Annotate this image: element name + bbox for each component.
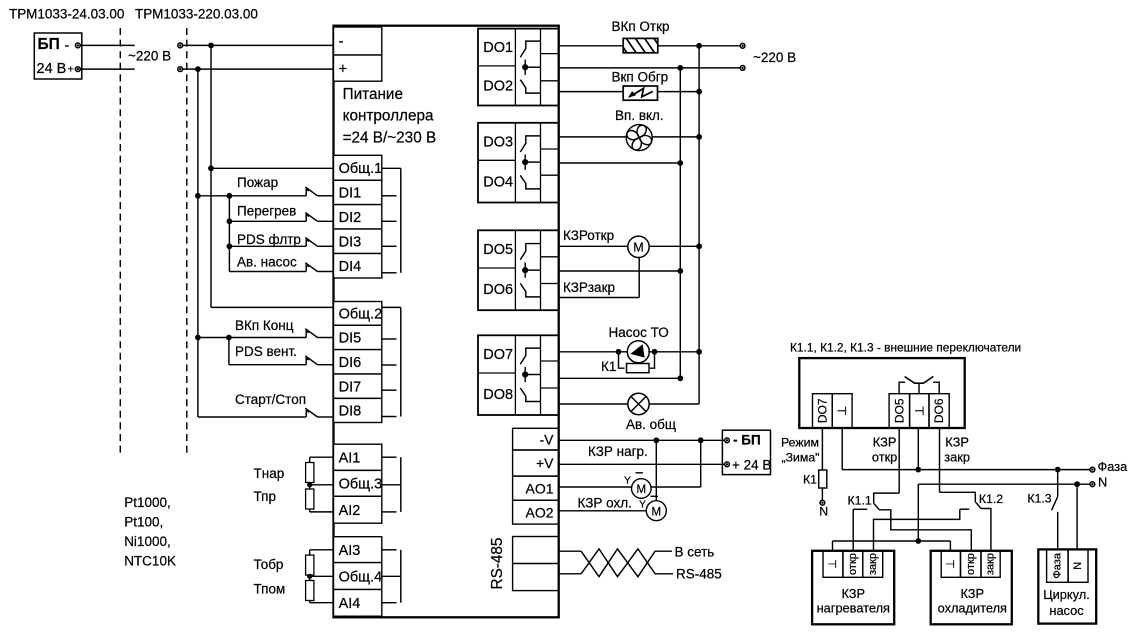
wire <box>318 416 334 418</box>
terminal ⊥ nagr <box>823 551 843 578</box>
svg-text:Режим: Режим <box>781 436 819 450</box>
svg-text:DO8: DO8 <box>483 387 513 403</box>
divider <box>541 360 559 362</box>
wire <box>700 440 702 487</box>
terminal откр ohl <box>961 551 982 578</box>
label minus M2 <box>651 495 659 497</box>
wire <box>874 493 900 503</box>
divider <box>541 174 559 176</box>
wire mains to plus terminal <box>183 68 334 70</box>
svg-text:„Зима": „Зима" <box>782 451 820 465</box>
junction <box>653 437 659 443</box>
svg-text:DO5: DO5 <box>483 242 513 258</box>
svg-text:К1: К1 <box>803 472 817 486</box>
terminal Общ.3 <box>334 470 382 496</box>
relay contact DO3 <box>520 136 540 189</box>
svg-text:-V: -V <box>540 431 555 447</box>
svg-text:DI7: DI7 <box>339 379 362 395</box>
wire RS485 B <box>559 573 581 575</box>
svg-text:Общ.2: Общ.2 <box>339 307 383 323</box>
svg-text:ВКп Откр: ВКп Откр <box>612 19 670 34</box>
twisted pair RS-485 <box>581 549 673 577</box>
terminal ⊥ ohl <box>941 551 960 578</box>
wire <box>229 364 306 366</box>
wire <box>229 337 306 339</box>
terminal 220V L <box>740 43 745 48</box>
svg-text:В сеть: В сеть <box>675 544 715 559</box>
junction <box>696 43 702 49</box>
svg-text:К1.1, К1.2, К1.3 - внешние пер: К1.1, К1.2, К1.3 - внешние переключатели <box>790 341 1021 355</box>
terminal DI6 <box>334 350 382 374</box>
svg-text:DO5: DO5 <box>892 398 906 423</box>
svg-text:Тобр: Тобр <box>254 557 284 572</box>
switch blade <box>305 187 317 196</box>
switch blade <box>305 329 317 338</box>
svg-text:насос: насос <box>1049 603 1084 618</box>
terminal DI1 <box>334 180 382 204</box>
svg-text:DO6: DO6 <box>483 282 513 298</box>
device KZR ohladitelya box <box>931 551 1012 625</box>
svg-text:DI2: DI2 <box>339 210 362 226</box>
wire <box>318 271 334 273</box>
terminal DO7 ext <box>813 394 833 428</box>
svg-text:К1: К1 <box>601 359 616 374</box>
wire to KZR ohl common <box>949 541 951 551</box>
junction <box>652 349 658 355</box>
wire <box>318 195 334 197</box>
svg-text:+: + <box>339 61 347 77</box>
wire to Obsh.1 <box>211 167 334 169</box>
wire fan to phase bus <box>652 136 699 138</box>
svg-text:DO6: DO6 <box>932 398 946 423</box>
svg-text:N: N <box>1072 562 1084 570</box>
junction <box>227 218 233 224</box>
wire <box>229 245 306 247</box>
terminal mains N <box>178 67 183 72</box>
svg-text:DI1: DI1 <box>339 186 362 202</box>
wire Obgr to phase bus <box>658 91 700 93</box>
terminal DI8 <box>334 398 382 422</box>
wire common2 down <box>917 428 919 470</box>
svg-text:- БП: - БП <box>733 433 761 448</box>
svg-text:DI5: DI5 <box>339 331 362 347</box>
valve actuator M2 KZR ohl <box>646 501 666 521</box>
terminal DI2 <box>334 205 382 229</box>
device circul pump box <box>1038 549 1096 623</box>
wire phase to K1.3 <box>1057 470 1059 497</box>
wire <box>228 338 230 365</box>
wire mains to minus terminal <box>183 44 334 46</box>
svg-text:AO1: AO1 <box>525 480 553 496</box>
svg-text:закр: закр <box>867 553 879 575</box>
terminal закр ohl <box>981 551 1000 578</box>
wire <box>318 337 334 339</box>
svg-text:N: N <box>1098 474 1107 489</box>
wire terminal stub <box>382 306 401 308</box>
svg-text:М: М <box>637 484 647 496</box>
wire DO3 out <box>559 136 627 138</box>
wire <box>197 416 199 418</box>
terminal DI3 <box>334 229 382 254</box>
wire <box>198 337 229 339</box>
junction <box>195 66 201 72</box>
svg-text:⊥: ⊥ <box>827 559 839 569</box>
wire to KZR nagr zakr <box>874 509 960 551</box>
svg-text:AI2: AI2 <box>339 503 361 519</box>
wire DO8 out <box>559 403 628 405</box>
wire <box>318 364 334 366</box>
svg-text:DI6: DI6 <box>339 355 362 371</box>
wire K1.1 to KZR ohl otkr <box>879 510 971 551</box>
wire sensor bottom <box>310 511 334 513</box>
wire <box>650 352 655 368</box>
svg-text:охладителя: охладителя <box>938 600 1007 615</box>
wire phase bus <box>698 46 700 404</box>
resistor sensor Тпр <box>306 489 314 509</box>
switch fixed contact <box>306 411 309 417</box>
divider <box>514 29 516 106</box>
lamp Av obsh <box>628 393 649 414</box>
junction <box>195 335 201 341</box>
wire <box>318 220 334 222</box>
wire terminal stub <box>382 167 401 169</box>
wire terminal stub <box>382 456 397 458</box>
divider <box>478 65 515 67</box>
svg-text:+V: +V <box>536 455 554 471</box>
divider <box>514 123 516 203</box>
svg-text:N: N <box>819 504 828 518</box>
switch fixed contact <box>306 190 309 196</box>
wire terminal stub <box>382 484 401 486</box>
terminal 220V N <box>740 66 745 71</box>
wire -V out <box>559 439 724 441</box>
wire sensor chain <box>309 457 311 512</box>
svg-text:Вкп Обгр: Вкп Обгр <box>612 69 669 84</box>
switch fixed contact <box>306 358 309 364</box>
divider <box>540 230 542 310</box>
heater VKp Otkr <box>616 37 664 53</box>
wire <box>198 416 306 418</box>
wire K1.2 to KZR ohl zakr <box>981 509 991 551</box>
wire AO1 out <box>559 486 632 488</box>
wire common bus 2 <box>197 69 199 417</box>
wire <box>198 195 230 197</box>
relay block DO3/DO4 <box>478 123 559 203</box>
svg-text:DO7: DO7 <box>815 398 829 423</box>
wire to KZR nagr common <box>832 541 834 551</box>
terminal mains L <box>178 43 183 48</box>
terminal block RS-485 <box>513 537 559 591</box>
svg-text:откр: откр <box>872 450 897 465</box>
svg-text:М: М <box>633 241 643 255</box>
svg-text:DO4: DO4 <box>483 174 513 190</box>
wire sensor bottom <box>310 602 334 604</box>
wire terminal stub <box>382 416 397 418</box>
relay block DO1/DO2 <box>478 29 559 106</box>
switch blade <box>305 408 317 417</box>
terminal AI3 <box>334 537 382 563</box>
wire bridge <box>833 540 951 542</box>
label minus M1 <box>636 472 644 474</box>
wire DO5 common to neutral bus <box>559 270 681 272</box>
svg-text:Питание: Питание <box>343 86 403 103</box>
svg-text:ТРМ1033-24.03.00: ТРМ1033-24.03.00 <box>9 7 124 22</box>
wire <box>229 271 306 273</box>
svg-text:Ав. насос: Ав. насос <box>237 255 297 270</box>
wire <box>940 492 976 502</box>
wire DO7 out <box>559 351 627 353</box>
svg-text:КЗР: КЗР <box>961 586 985 601</box>
svg-text:DI3: DI3 <box>339 234 362 250</box>
external switch box <box>799 358 964 428</box>
svg-text:Ав. общ: Ав. общ <box>626 417 676 432</box>
wire sensor top <box>310 549 334 551</box>
svg-text:AI1: AI1 <box>339 451 361 467</box>
junction <box>226 335 232 341</box>
svg-text:RS-485: RS-485 <box>676 566 722 581</box>
junction <box>677 160 683 166</box>
wire common1 down <box>841 428 843 470</box>
junction <box>227 243 233 249</box>
svg-text:Вп. вкл.: Вп. вкл. <box>615 108 664 123</box>
wire DO1 out <box>559 45 624 47</box>
wire <box>229 195 306 197</box>
terminal AO2 <box>513 500 559 524</box>
junction <box>698 437 704 443</box>
svg-text:КЗР: КЗР <box>945 435 969 450</box>
svg-text:Y: Y <box>624 475 631 487</box>
svg-text:DO3: DO3 <box>483 134 513 150</box>
svg-text:24 В: 24 В <box>37 61 67 77</box>
power supply BP box <box>34 33 82 79</box>
svg-text:=24 В/~230 В: =24 В/~230 В <box>343 130 437 147</box>
relay contact DO7 <box>520 348 540 401</box>
svg-text:контроллера: контроллера <box>343 108 434 125</box>
divider <box>541 283 559 285</box>
wire DI group bus <box>228 196 230 272</box>
wire terminal stub <box>382 389 397 391</box>
wire group bracket <box>400 550 402 603</box>
wire BP minus <box>81 44 135 46</box>
junction <box>696 349 702 355</box>
terminal N winter <box>820 500 825 505</box>
junction <box>1074 481 1080 487</box>
wire phase line <box>842 469 1090 471</box>
switch fixed contact <box>306 331 309 337</box>
junction <box>307 482 312 487</box>
wire group bracket <box>400 168 402 272</box>
wire sensor mid <box>310 575 334 577</box>
terminal N <box>1090 482 1095 487</box>
wire DO2 out <box>559 91 624 93</box>
junction <box>696 243 702 249</box>
svg-text:Насос ТО: Насос ТО <box>609 325 669 340</box>
wire heater to mains <box>658 45 742 47</box>
switch blade <box>305 356 317 365</box>
divider <box>541 53 559 55</box>
wire AO2 out <box>559 510 646 512</box>
svg-text:Pt100,: Pt100, <box>124 515 163 530</box>
terminal N pump <box>1068 549 1088 582</box>
junction <box>1055 467 1061 473</box>
junction <box>915 467 921 473</box>
svg-text:Тпом: Тпом <box>254 582 286 597</box>
wire DO5 out <box>559 245 628 247</box>
svg-text:КЗР охл.: КЗР охл. <box>578 496 632 511</box>
switch K1.2 contact <box>960 508 969 510</box>
resistor sensor Тнар <box>306 463 314 483</box>
svg-text:DO2: DO2 <box>483 79 513 95</box>
switch fixed contact <box>306 215 309 221</box>
wire N to pump N <box>1076 484 1078 549</box>
svg-text:Общ.3: Общ.3 <box>339 477 383 493</box>
wire neutral bus <box>679 69 681 378</box>
svg-text:RS-485: RS-485 <box>489 538 506 590</box>
svg-text:М: М <box>652 507 662 519</box>
switch K1.1 contact <box>853 508 867 510</box>
wire terminal stub <box>382 272 397 274</box>
junction <box>227 193 233 199</box>
svg-text:Перегрев: Перегрев <box>237 203 296 218</box>
svg-text:⊥: ⊥ <box>945 559 957 569</box>
svg-text:NTC10K: NTC10K <box>124 554 176 569</box>
svg-text:ВКп Конц: ВКп Конц <box>235 318 294 333</box>
wire group bracket <box>400 457 402 512</box>
wire -V to M2 <box>655 440 657 500</box>
svg-text:КЗР нагр.: КЗР нагр. <box>588 444 648 459</box>
terminal -V <box>513 428 559 450</box>
svg-text:Пожар: Пожар <box>237 175 278 190</box>
divider <box>514 230 516 310</box>
terminal BP plus <box>75 67 80 72</box>
svg-text:DI8: DI8 <box>339 404 362 420</box>
svg-text:БП: БП <box>38 36 60 53</box>
wire N to bridge <box>917 484 919 541</box>
wire pump to phase bus <box>648 351 699 353</box>
terminal AI1 <box>334 444 382 470</box>
divider <box>540 29 542 106</box>
switch symbol inside external box <box>899 376 939 393</box>
svg-text:PDS флтр: PDS флтр <box>237 232 301 247</box>
power supply 24V box <box>722 430 770 474</box>
wire sensor top <box>310 456 334 458</box>
relay block DO7/DO8 <box>478 335 559 415</box>
terminal minus <box>334 27 382 55</box>
wire lamp to phase bus <box>649 403 699 405</box>
divider <box>541 80 559 82</box>
wire to Obsh.2 <box>211 306 334 308</box>
wire DO7 common to neutral bus <box>559 377 681 379</box>
svg-text:КЗР: КЗР <box>873 435 897 450</box>
wire N line <box>918 483 1090 485</box>
svg-text:КЗРзакр: КЗРзакр <box>563 280 615 295</box>
wire <box>318 245 334 247</box>
svg-text:Pt1000,: Pt1000, <box>124 495 171 510</box>
pump Nasos TO <box>627 341 649 363</box>
wire DO7 ext down <box>821 428 823 470</box>
wire <box>821 488 823 500</box>
resistor sensor Тобр <box>306 555 314 575</box>
resistor sensor Тпом <box>306 581 314 601</box>
wire DO6 out <box>559 297 640 299</box>
wire terminal stub <box>382 511 397 513</box>
svg-text:Тпр: Тпр <box>254 489 276 504</box>
terminal BP minus 24V <box>725 438 730 443</box>
divider <box>478 159 515 161</box>
wire group bracket <box>400 307 402 416</box>
junction <box>195 193 201 199</box>
device KZR nagrevatelya box <box>812 551 894 625</box>
svg-text:~220 В: ~220 В <box>128 49 171 64</box>
relay coil K1 <box>619 352 625 368</box>
terminal DO5 ext <box>889 394 910 428</box>
damper actuator Vkp Obgr <box>623 86 657 100</box>
svg-text:Y: Y <box>639 499 646 511</box>
separator dashed line 1 <box>119 28 121 456</box>
relay contact DO5 <box>520 244 540 297</box>
divider <box>478 372 515 374</box>
wire terminal stub <box>382 220 397 222</box>
wire BP plus <box>81 68 135 70</box>
svg-text:+: + <box>68 64 74 76</box>
terminal +V <box>513 450 559 476</box>
wire DO6 ext down <box>939 428 941 492</box>
junction <box>677 268 683 274</box>
terminal BP plus 24V <box>725 462 730 467</box>
divider <box>478 267 515 269</box>
svg-text:+ 24 В: + 24 В <box>732 457 771 472</box>
wire motor to phase bus <box>649 245 699 247</box>
wire terminal stub <box>382 338 397 340</box>
wire <box>229 220 306 222</box>
svg-text:откр: откр <box>847 553 859 575</box>
svg-text:Фаза: Фаза <box>1098 459 1129 474</box>
wire RS485 A <box>559 550 581 552</box>
switch K1.1 blade <box>874 503 880 510</box>
svg-text:К1.2: К1.2 <box>979 492 1003 506</box>
terminal DI4 <box>334 254 382 279</box>
wire to KZR nagr otkr <box>852 509 854 551</box>
svg-text:-: - <box>339 34 344 50</box>
terminal Общ.1 <box>334 155 382 180</box>
terminal AI4 <box>334 590 382 617</box>
terminal plus <box>334 55 382 81</box>
switch blade <box>305 238 317 247</box>
terminal DO6 ext <box>929 394 949 428</box>
terminal DI7 <box>334 374 382 398</box>
terminal DI5 <box>334 325 382 349</box>
junction <box>677 375 683 381</box>
wire sensor mid <box>310 484 334 486</box>
terminal откр nagr <box>843 551 863 578</box>
wire DO3 common to neutral bus <box>559 162 681 164</box>
wire terminal stub <box>382 364 397 366</box>
terminal Фаза pump <box>1047 549 1069 582</box>
terminal Общ.4 <box>334 563 382 590</box>
relay contact DO1 <box>520 41 540 93</box>
svg-text:~220 В: ~220 В <box>753 50 796 65</box>
divider <box>540 123 542 203</box>
divider <box>541 387 559 389</box>
wire M1 to -V <box>651 486 701 488</box>
fan Vp vkl <box>623 121 656 154</box>
junction <box>696 89 702 95</box>
wire terminal stub <box>382 602 397 604</box>
wire terminal stub <box>382 195 397 197</box>
divider <box>514 335 516 415</box>
terminal Общ.2 <box>334 302 382 326</box>
terminal BP minus <box>75 43 80 48</box>
